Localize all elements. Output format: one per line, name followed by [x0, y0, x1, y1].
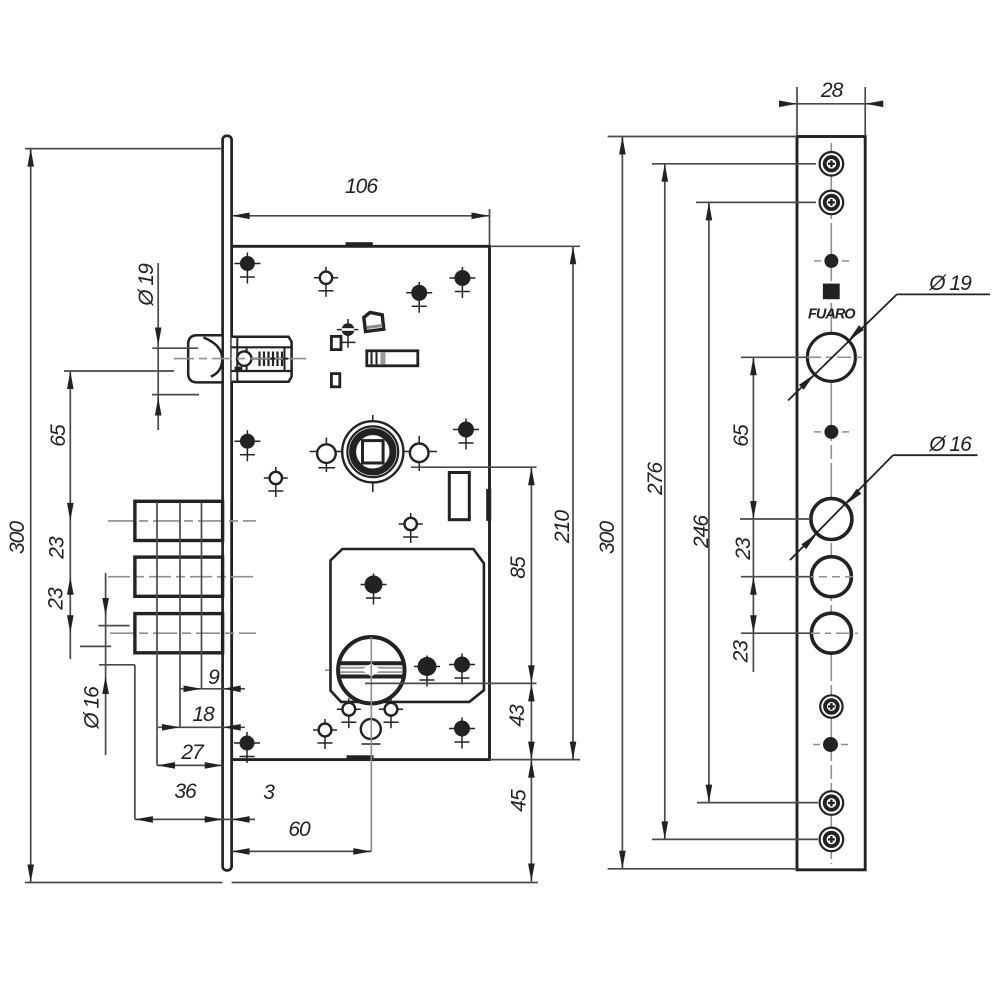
- spindle follower crosshair: [310, 451, 438, 453]
- svg-text:18: 18: [192, 703, 215, 726]
- screw hole mid: [820, 695, 842, 717]
- dim 60: [232, 850, 372, 852]
- svg-text:9: 9: [208, 666, 220, 689]
- dim dia19 (latch): [152, 347, 198, 349]
- guide slot rectangle: [449, 473, 469, 520]
- screw hole top 1: [820, 152, 844, 176]
- dim 106 (top): [489, 209, 491, 245]
- lock case body (side view): [232, 246, 490, 759]
- right edge notch: [486, 489, 491, 521]
- cylinder housing (octagon): [331, 549, 484, 702]
- svg-text:23: 23: [46, 536, 69, 560]
- hole dia16 #3: [811, 613, 851, 653]
- small rect part A: [331, 336, 341, 349]
- latch spring hatch: [258, 352, 260, 367]
- screw hole B5: [337, 698, 361, 728]
- svg-text:Ø 16: Ø 16: [928, 433, 972, 456]
- ext line L-shape bolt3: [99, 664, 135, 666]
- screw hole B4: [313, 719, 337, 749]
- svg-text:23: 23: [730, 640, 753, 664]
- svg-text:300: 300: [596, 521, 619, 554]
- centerline bolt 1: [108, 520, 256, 522]
- dim 276: [652, 163, 816, 165]
- centerline latch: [174, 358, 306, 360]
- leader dia19: [788, 294, 897, 400]
- faceplate vertical centerline: [830, 143, 832, 864]
- svg-text:246: 246: [690, 515, 713, 549]
- svg-text:300: 300: [6, 521, 29, 554]
- post A9: [449, 718, 475, 749]
- dim 23 right upper: [741, 576, 811, 578]
- svg-text:Ø 16: Ø 16: [81, 686, 104, 730]
- dim 3: [232, 816, 250, 823]
- post dot R1: [824, 254, 838, 268]
- spindle follower hub: [342, 421, 403, 482]
- deadbolt 3: [135, 614, 223, 653]
- dim 23 left upper: [67, 577, 74, 595]
- screw hole B1: [314, 267, 338, 297]
- screw hole bottom 2: [820, 828, 844, 852]
- follower side hole right: [418, 436, 420, 471]
- dim 18: [158, 726, 245, 728]
- FUARO logo: [823, 284, 840, 300]
- svg-text:85: 85: [507, 556, 530, 579]
- svg-text:43: 43: [506, 704, 529, 727]
- dim 45: [528, 760, 535, 778]
- svg-text:106: 106: [345, 175, 378, 198]
- screw hole B6: [379, 698, 403, 728]
- dim 27: [157, 764, 223, 766]
- lock cylinder circle: [338, 637, 404, 703]
- post A5: [453, 419, 479, 450]
- deadbolt 2: [135, 557, 223, 596]
- hole dia16 #1: [811, 499, 852, 540]
- follower side hole left: [325, 438, 327, 472]
- key hole circle: [361, 719, 381, 739]
- centerline bolt 2: [108, 576, 256, 578]
- dim 43: [528, 683, 535, 701]
- svg-text:210: 210: [551, 510, 574, 544]
- svg-text:Ø 19: Ø 19: [135, 263, 158, 307]
- post A7: [414, 656, 440, 687]
- svg-text:Ø 19: Ø 19: [928, 272, 972, 295]
- post A1: [234, 253, 260, 284]
- latch bolt head (D shape): [188, 335, 222, 382]
- svg-text:65: 65: [47, 424, 70, 447]
- svg-text:27: 27: [180, 741, 205, 764]
- snib lever (tilted quad): [364, 312, 384, 331]
- svg-text:65: 65: [730, 424, 753, 447]
- svg-text:276: 276: [644, 462, 667, 496]
- faceplate front view: [797, 137, 865, 870]
- deadbolt 1: [135, 501, 223, 540]
- svg-text:23: 23: [45, 587, 68, 611]
- centerline cylinder horizontal: [325, 669, 337, 671]
- post A6: [361, 574, 387, 605]
- hole dia19 front: [807, 333, 855, 381]
- faceplate (side view, edge-on strip): [223, 136, 232, 871]
- hole dia16 #2: [811, 557, 851, 597]
- post A10: [234, 732, 260, 763]
- svg-text:3: 3: [263, 781, 275, 804]
- ext verticals 27/18/9: [156, 502, 158, 765]
- post A3: [406, 282, 432, 313]
- dim 9: [179, 688, 245, 690]
- post A4: [234, 430, 260, 461]
- dim 23 right lower: [741, 632, 811, 634]
- dim 28 (top): [796, 87, 798, 137]
- svg-text:60: 60: [288, 818, 311, 841]
- svg-text:36: 36: [174, 780, 197, 803]
- post dot R2: [824, 425, 838, 439]
- post A2: [449, 267, 475, 298]
- stop pin (small filled circle with cross): [337, 329, 359, 331]
- svg-text:45: 45: [508, 789, 531, 812]
- dim 85: [411, 466, 537, 468]
- small rect part B: [331, 374, 339, 387]
- spindle square hole: [363, 441, 384, 463]
- screw hole B2: [264, 467, 288, 497]
- faceplate edges through latch: [222, 333, 224, 384]
- dim 246: [696, 201, 816, 203]
- svg-text:FUARO: FUARO: [808, 306, 856, 322]
- screw hole top 2: [820, 191, 844, 215]
- dim 65 left: [64, 370, 174, 372]
- centerline bolt 3: [110, 632, 256, 634]
- screw hole bottom 1: [820, 791, 844, 815]
- latch body with spring: [232, 337, 292, 382]
- slide lever bar: [367, 351, 418, 366]
- centerline cylinder vertical: [370, 600, 372, 851]
- fixing tab bottom: [347, 755, 374, 760]
- screw hole B3: [399, 513, 423, 543]
- leader dia16: [790, 455, 893, 560]
- svg-text:23: 23: [732, 537, 755, 561]
- fixing tab top: [346, 242, 373, 247]
- dim dia16 (bolt): [98, 625, 129, 627]
- dim 300 right view: [608, 136, 797, 138]
- post dot R3: [823, 737, 838, 752]
- dim 210: [490, 245, 581, 247]
- svg-text:28: 28: [820, 79, 844, 102]
- dim 65 right: [741, 356, 807, 358]
- dim 23 left lower: [67, 615, 74, 633]
- dim 300 (far left): [25, 148, 222, 150]
- post A8: [449, 654, 475, 685]
- dim 36: [135, 818, 255, 820]
